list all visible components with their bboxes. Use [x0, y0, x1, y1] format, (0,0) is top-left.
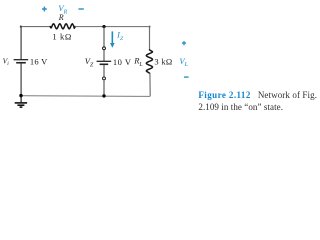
wire right vertical upper	[149, 26, 151, 50]
wire top-right segment	[75, 26, 150, 28]
svg-text:16 V: 16 V	[30, 56, 48, 66]
battery V_i plates	[14, 59, 29, 61]
label − (of V_L)	[184, 76, 189, 78]
wire top-left segment	[21, 26, 51, 28]
wire left vertical upper	[20, 26, 22, 59]
node terminal circle lower	[103, 77, 106, 80]
label − (of V_R)	[78, 8, 83, 10]
node terminal circle upper	[103, 47, 106, 50]
resistor R (1 kΩ) zigzag	[50, 24, 75, 29]
wire middle circle-to-battery	[103, 50, 105, 61]
node top-left corner	[20, 26, 22, 28]
node bottom-left junction dot	[19, 94, 22, 97]
wire right vertical lower	[149, 73, 151, 96]
svg-text:RL: RL	[133, 55, 142, 67]
wire middle battery-to-circle	[103, 65, 105, 77]
svg-text:3 kΩ: 3 kΩ	[154, 56, 172, 66]
wire left vertical lower	[20, 63, 22, 95]
svg-text:VL: VL	[179, 56, 187, 68]
node top junction dot	[102, 25, 105, 28]
caption Figure 2.112	[198, 90, 319, 113]
current arrow I_Z	[110, 31, 115, 47]
battery V_Z plates	[97, 60, 112, 62]
svg-text:R: R	[58, 13, 64, 22]
svg-text:IZ: IZ	[116, 30, 124, 42]
node top-right corner	[149, 26, 151, 28]
wire bottom horizontal	[21, 95, 150, 98]
node bottom middle junction dot	[102, 94, 105, 97]
ground	[15, 96, 27, 108]
svg-text:VZ: VZ	[85, 56, 94, 68]
resistor R_L zigzag	[146, 50, 152, 74]
svg-text:10 V: 10 V	[113, 57, 132, 67]
wire middle upper	[103, 27, 105, 47]
svg-text:1 kΩ: 1 kΩ	[52, 31, 72, 41]
svg-text:Vi: Vi	[3, 56, 10, 67]
label + (of V_L)	[182, 41, 186, 45]
label + (of V_R)	[42, 7, 47, 12]
wire middle lower	[103, 80, 105, 96]
